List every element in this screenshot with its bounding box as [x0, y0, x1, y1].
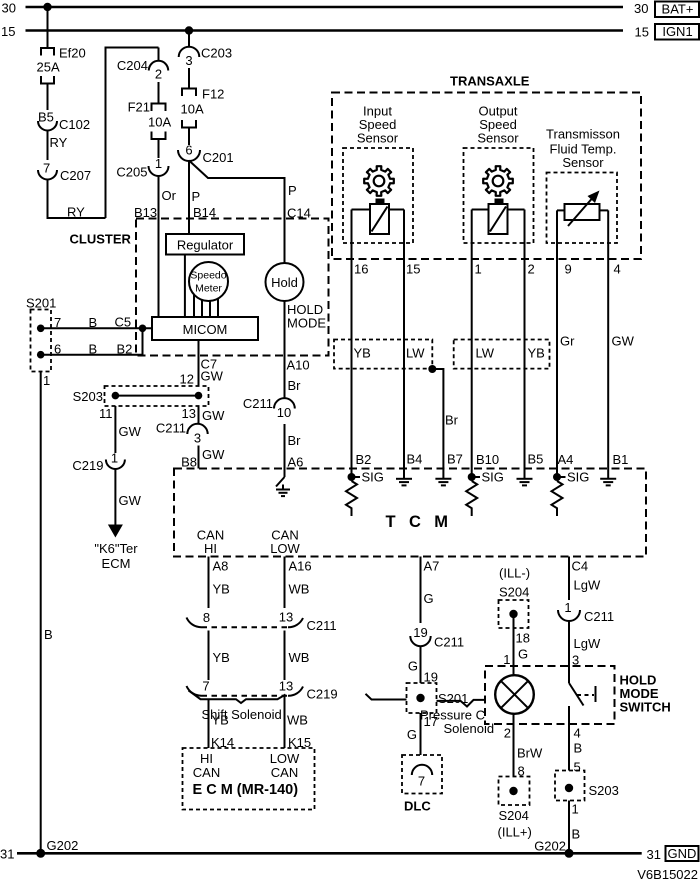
svg-text:13: 13 — [279, 679, 293, 694]
splice S204 ILL- — [499, 566, 531, 629]
node BAT+ — [655, 2, 699, 18]
svg-text:9: 9 — [565, 262, 572, 277]
wire G C211-19 to S201 — [408, 647, 438, 685]
svg-text:LgW: LgW — [574, 636, 601, 651]
svg-text:16: 16 — [354, 262, 368, 277]
svg-text:6: 6 — [54, 342, 61, 357]
wire LW input sensor pin 15 to TCM B4 — [404, 210, 420, 478]
wire GW MICOM C7 to S203 — [180, 340, 224, 387]
splice S203 — [73, 386, 209, 406]
svg-text:Br: Br — [288, 378, 302, 393]
svg-text:B: B — [44, 627, 53, 642]
switch contact to ground at A6 inside TCM — [276, 477, 290, 496]
regulator — [166, 234, 244, 255]
svg-text:SIG: SIG — [567, 470, 589, 485]
svg-text:S203: S203 — [73, 389, 103, 404]
connector C211 pin 19 — [410, 625, 464, 650]
svg-text:Sensor: Sensor — [477, 131, 519, 146]
svg-text:WB: WB — [289, 582, 310, 597]
svg-text:10: 10 — [277, 405, 291, 420]
svg-text:12: 12 — [180, 372, 194, 387]
splice S204 ILL+ — [498, 777, 532, 840]
svg-text:C211: C211 — [156, 421, 186, 436]
cluster box — [70, 219, 329, 356]
svg-text:5: 5 — [574, 760, 581, 775]
svg-text:RY: RY — [50, 135, 68, 150]
svg-text:E C M (MR-140): E C M (MR-140) — [193, 782, 299, 798]
svg-text:YB: YB — [528, 346, 545, 361]
label pressure control solenoid — [420, 708, 494, 737]
harness box YB LW — [334, 340, 432, 369]
wire regulator to MICOM — [184, 255, 186, 318]
svg-text:G: G — [424, 591, 434, 606]
svg-text:A7: A7 — [424, 559, 440, 574]
svg-text:B10: B10 — [476, 452, 499, 467]
svg-text:P: P — [192, 189, 201, 204]
svg-text:TRANSAXLE: TRANSAXLE — [450, 74, 530, 89]
connector C205 pin 1 — [116, 156, 168, 180]
node IGN1 — [655, 24, 699, 40]
fuse Ef20 25A — [37, 46, 86, 84]
wire GW temp sensor pin 4 to TCM B1 — [608, 210, 634, 477]
svg-text:1: 1 — [564, 600, 571, 615]
wire GW C219 to ECM K6 arrow — [94, 469, 141, 571]
bus 30 (BAT+) — [2, 1, 649, 17]
svg-text:DLC: DLC — [404, 799, 431, 814]
connector C219 pins 7 13 — [187, 679, 338, 702]
svg-text:LW: LW — [406, 346, 425, 361]
svg-text:C205: C205 — [116, 165, 147, 180]
svg-text:C201: C201 — [203, 150, 234, 165]
svg-text:2: 2 — [528, 262, 535, 277]
svg-text:(ILL-): (ILL-) — [499, 566, 530, 581]
pin B7 ground — [435, 452, 463, 486]
wire G S201 to DLC — [407, 713, 438, 755]
svg-text:1: 1 — [155, 156, 162, 171]
wire GW C211-3 to TCM B8 — [181, 446, 225, 470]
svg-text:Sensor: Sensor — [357, 131, 399, 146]
svg-text:A8: A8 — [213, 559, 229, 574]
svg-text:B: B — [572, 827, 581, 842]
junction on bus 30 — [43, 3, 51, 11]
pin B5 ground — [517, 452, 544, 486]
wire C203 to fuse F12 — [188, 68, 190, 89]
svg-text:G202: G202 — [47, 838, 79, 853]
connector DLC pin 7 — [402, 755, 442, 814]
svg-text:G: G — [518, 647, 528, 662]
svg-text:GW: GW — [202, 447, 225, 462]
svg-text:G202: G202 — [534, 839, 566, 854]
wire LW output sensor pin 1 to TCM B10 — [472, 210, 482, 478]
svg-text:F21: F21 — [128, 100, 150, 115]
wire hold to A10 — [284, 301, 286, 398]
svg-text:Meter: Meter — [195, 283, 222, 295]
svg-text:8: 8 — [203, 610, 210, 625]
pin B4 ground — [396, 452, 422, 486]
splice S201 pressure control — [407, 683, 469, 713]
svg-text:30: 30 — [634, 1, 648, 16]
svg-text:3: 3 — [185, 53, 192, 68]
svg-text:10A: 10A — [181, 102, 204, 117]
lamp hold illumination — [495, 675, 534, 714]
op ECM MR-140 — [183, 748, 315, 810]
svg-text:GW: GW — [202, 408, 225, 423]
svg-text:3: 3 — [194, 431, 201, 446]
svg-text:6: 6 — [185, 143, 192, 158]
svg-text:GW: GW — [612, 334, 635, 349]
op MICOM U1 — [152, 317, 258, 340]
bus 31 (GND) — [0, 847, 661, 863]
wire G TCM A7 to C211-19 — [421, 557, 440, 624]
wire WB C219-13 to ECM K15 — [285, 696, 312, 750]
svg-text:CLUSTER: CLUSTER — [70, 232, 132, 247]
wire Or C205 to MICOM pin B13 — [134, 176, 177, 317]
connector C211 pin 3 — [156, 421, 208, 446]
svg-text:Br: Br — [445, 413, 459, 428]
svg-text:7: 7 — [54, 315, 61, 330]
svg-text:HI: HI — [204, 541, 217, 556]
svg-text:B4: B4 — [407, 452, 423, 467]
svg-text:SIG: SIG — [362, 470, 384, 485]
bus 15 (IGN1) — [1, 24, 649, 40]
wire YB input sensor pin 16 to TCM B2 — [352, 210, 369, 478]
svg-text:GW: GW — [119, 493, 142, 508]
svg-text:1: 1 — [111, 451, 118, 466]
svg-text:BAT+: BAT+ — [662, 2, 694, 17]
label CAN LOW — [270, 528, 300, 557]
svg-text:B: B — [89, 342, 98, 357]
wire YB TCM A8 to C211-8 — [209, 557, 230, 609]
svg-text:1: 1 — [475, 262, 482, 277]
svg-text:B2: B2 — [356, 452, 372, 467]
svg-text:V6B15022: V6B15022 — [637, 867, 698, 881]
wire Br junction to TCM B7 — [428, 365, 458, 477]
svg-text:B: B — [89, 315, 98, 330]
svg-text:T C M: T C M — [386, 513, 453, 531]
wire S201 to hold mode switch box — [437, 700, 486, 707]
connector C204 pin 2 — [117, 48, 168, 82]
wire B S201-6 to MICOM B2 — [41, 328, 143, 356]
svg-text:HI: HI — [200, 751, 213, 766]
svg-text:GND: GND — [668, 846, 697, 861]
switch blade hold mode — [569, 683, 596, 706]
node G202 left — [36, 838, 78, 858]
svg-text:B1: B1 — [613, 452, 629, 467]
wire RY C102 to C207 — [48, 131, 68, 161]
svg-text:S203: S203 — [589, 783, 619, 798]
svg-text:Speedo: Speedo — [190, 270, 226, 282]
svg-text:BrW: BrW — [517, 746, 543, 761]
svg-text:Gr: Gr — [560, 334, 575, 349]
svg-text:YB: YB — [212, 713, 229, 728]
svg-text:15: 15 — [1, 24, 15, 39]
transaxle box — [332, 74, 641, 260]
output speed sensor — [464, 104, 534, 244]
svg-text:7: 7 — [202, 679, 209, 694]
wire bus30 to fuse Ef20 — [47, 7, 49, 48]
svg-text:4: 4 — [614, 262, 621, 277]
fuse F21 10A — [128, 100, 172, 140]
svg-text:C203: C203 — [201, 46, 232, 61]
svg-text:C211: C211 — [307, 618, 337, 633]
connector C219 pin 1 — [72, 451, 124, 474]
svg-text:GW: GW — [201, 369, 224, 384]
wire B switch to S203 — [569, 706, 582, 775]
svg-text:C219: C219 — [72, 458, 103, 473]
svg-text:30: 30 — [2, 1, 16, 16]
svg-text:(ILL+): (ILL+) — [498, 825, 532, 840]
hold lamp circle — [266, 263, 304, 301]
wire GW S203-11 to C219 — [99, 406, 142, 453]
wire C204 to fuse F21 — [158, 82, 160, 104]
svg-text:A6: A6 — [288, 455, 304, 470]
svg-text:7: 7 — [418, 774, 425, 789]
svg-text:LgW: LgW — [574, 578, 601, 593]
svg-text:B5: B5 — [38, 110, 54, 125]
wire F12 to connector C201 — [188, 128, 190, 146]
svg-text:C211: C211 — [584, 609, 614, 624]
svg-text:A4: A4 — [558, 452, 574, 467]
node GND — [666, 846, 699, 861]
svg-text:15: 15 — [635, 25, 649, 40]
svg-text:SIG: SIG — [482, 470, 504, 485]
svg-text:CAN: CAN — [193, 765, 220, 780]
wire B S201-7 to MICOM C5 — [41, 315, 152, 333]
svg-text:CAN: CAN — [271, 765, 298, 780]
wire P branch C201 to hold pin C14 — [189, 161, 311, 264]
TCM box — [174, 469, 646, 557]
svg-text:31: 31 — [647, 847, 661, 862]
svg-text:G: G — [407, 727, 417, 742]
wire G S204 to hold lamp — [503, 614, 530, 675]
svg-text:Or: Or — [162, 188, 177, 203]
connector C211 pin 10 — [243, 396, 295, 420]
wire fuse Ef20 to connector C102 — [47, 84, 49, 111]
fuse F12 10A — [181, 87, 225, 128]
pin B2 SIG pull resistor — [346, 452, 384, 516]
wire YB C211-8 to C219-7 — [209, 631, 230, 681]
svg-text:YB: YB — [354, 346, 371, 361]
svg-text:B7: B7 — [447, 452, 463, 467]
wire F21 to connector C205 — [158, 139, 160, 158]
svg-text:2: 2 — [155, 67, 162, 82]
svg-text:2: 2 — [504, 726, 511, 741]
svg-text:C102: C102 — [59, 117, 90, 132]
node G202 right — [534, 839, 573, 858]
svg-text:Transmisson: Transmisson — [546, 127, 620, 142]
wire BrW lamp to S204 ILL+ — [504, 714, 543, 779]
svg-text:B8: B8 — [181, 455, 197, 470]
wire B S201 to G202 — [41, 372, 53, 854]
svg-text:MICOM: MICOM — [183, 322, 228, 337]
svg-text:Br: Br — [288, 433, 302, 448]
wire stub to C219 hook — [366, 694, 407, 700]
wire bus15 to connector C203 — [188, 31, 190, 48]
hold mode switch box — [485, 666, 671, 724]
wire Gr temp sensor pin 9 to TCM A4 — [557, 210, 575, 477]
svg-text:Sensor: Sensor — [562, 155, 604, 170]
connector C211 pins 8 13 — [187, 610, 337, 634]
svg-text:ECM: ECM — [102, 556, 131, 571]
svg-text:13: 13 — [182, 406, 196, 421]
svg-text:18: 18 — [516, 631, 530, 646]
svg-text:F12: F12 — [202, 87, 224, 102]
splice S203 hold — [555, 771, 619, 801]
svg-text:S204: S204 — [499, 585, 529, 600]
svg-text:S201: S201 — [26, 296, 56, 311]
svg-text:"K6"Ter: "K6"Ter — [94, 541, 138, 556]
svg-text:LOW: LOW — [270, 541, 300, 556]
svg-text:19: 19 — [413, 625, 427, 640]
junction on bus 15 — [185, 26, 193, 34]
pin B1 ground — [600, 452, 628, 485]
svg-text:C5: C5 — [115, 315, 132, 330]
svg-text:WB: WB — [289, 650, 310, 665]
svg-text:C219: C219 — [307, 687, 338, 702]
svg-text:25A: 25A — [37, 60, 60, 75]
svg-text:SWITCH: SWITCH — [620, 700, 671, 715]
connector C201 pin 6 — [178, 143, 234, 166]
svg-text:Hold: Hold — [271, 275, 298, 290]
wire WB TCM A16 to C211-13 — [285, 557, 312, 609]
connector C203 pin 3 — [179, 46, 232, 69]
svg-text:1: 1 — [503, 652, 510, 667]
pin A4 SIG pull resistor — [552, 452, 590, 516]
wire GW S203-13 to C211 — [182, 406, 226, 425]
wire B S203 to G202 — [569, 801, 580, 854]
label CAN HI — [197, 528, 224, 557]
wire shift solenoid crossover — [189, 691, 286, 723]
svg-text:WB: WB — [287, 713, 308, 728]
svg-text:A10: A10 — [287, 358, 310, 373]
svg-text:C207: C207 — [60, 168, 91, 183]
svg-text:31: 31 — [0, 847, 14, 862]
input speed sensor — [343, 104, 413, 244]
harness box LW YB — [454, 340, 550, 369]
svg-text:IGN1: IGN1 — [662, 24, 692, 39]
wire Br C211-10 to TCM A6 — [285, 424, 304, 477]
svg-text:C211: C211 — [434, 635, 464, 650]
wire LgW TCM C4 to C211-1 — [569, 557, 601, 601]
connector C211 pin 1 — [558, 600, 614, 624]
svg-text:15: 15 — [406, 262, 420, 277]
svg-text:B5: B5 — [528, 452, 544, 467]
wire Br hold A10 to C211 — [287, 358, 310, 394]
svg-text:7: 7 — [43, 161, 50, 176]
svg-text:LW: LW — [476, 346, 495, 361]
wire WB C211-13 to C219-13 — [285, 631, 310, 681]
svg-text:4: 4 — [574, 726, 581, 741]
speedometer — [189, 262, 228, 301]
svg-text:1: 1 — [572, 802, 579, 817]
svg-text:G: G — [408, 659, 418, 674]
svg-text:P: P — [288, 183, 297, 198]
svg-text:A16: A16 — [289, 559, 312, 574]
svg-text:C204: C204 — [117, 58, 148, 73]
svg-text:LOW: LOW — [270, 751, 300, 766]
svg-text:Regulator: Regulator — [177, 238, 234, 253]
connector C207 pin 7 — [38, 161, 91, 184]
svg-text:C211: C211 — [243, 396, 273, 411]
label HOLD MODE — [287, 302, 326, 331]
svg-text:17: 17 — [424, 714, 438, 729]
wire LgW C211-1 to switch — [569, 621, 601, 683]
transmission fluid temp sensor — [546, 127, 620, 244]
svg-text:MODE: MODE — [287, 316, 326, 331]
pin B10 SIG pull resistor — [466, 452, 504, 516]
svg-text:B: B — [574, 741, 583, 756]
svg-text:3: 3 — [572, 653, 579, 668]
svg-text:GW: GW — [119, 424, 142, 439]
wire RY C207 to C204 riser — [48, 48, 159, 220]
svg-text:11: 11 — [99, 406, 113, 421]
svg-text:13: 13 — [279, 610, 293, 625]
wires speedometer to MICOM — [194, 295, 218, 317]
svg-text:Ef20: Ef20 — [59, 46, 86, 61]
svg-text:C4: C4 — [572, 559, 589, 574]
svg-text:10A: 10A — [148, 115, 171, 130]
svg-text:RY: RY — [67, 205, 85, 220]
svg-text:1: 1 — [43, 373, 50, 388]
svg-text:YB: YB — [213, 650, 230, 665]
svg-text:YB: YB — [213, 582, 230, 597]
wire YB C219-7 to ECM K14 — [209, 699, 235, 750]
svg-text:B2: B2 — [117, 342, 133, 357]
connector C102 pin B5 — [38, 110, 90, 133]
wire P C201 to regulator pin B14 — [189, 161, 216, 235]
wire YB output sensor pin 2 to TCM B5 — [525, 210, 535, 478]
splice S201 instrument — [26, 296, 56, 372]
svg-text:S204: S204 — [499, 808, 529, 823]
